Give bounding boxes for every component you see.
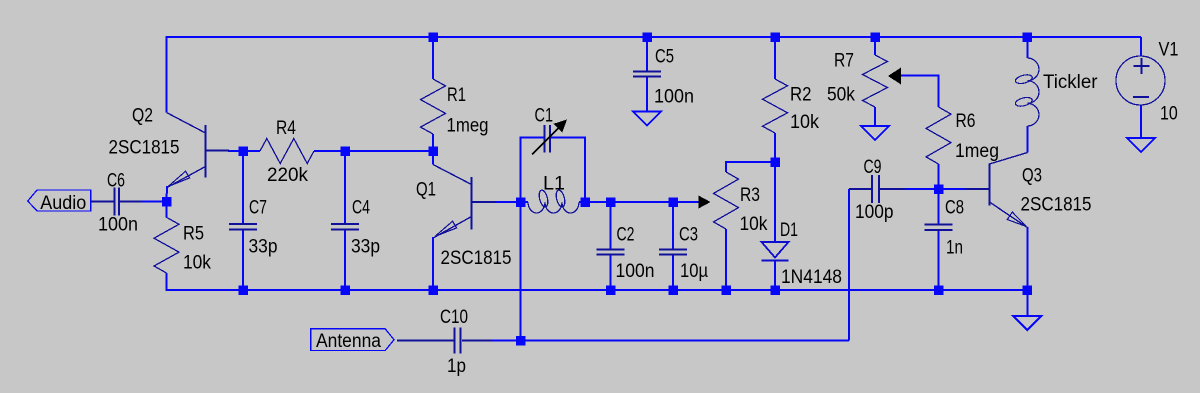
label R1 [447,85,466,106]
wire C10 to tank column [462,340,521,342]
junction node 20 [721,285,731,295]
wire C7 top lead [242,151,244,223]
label Q1 [416,180,436,201]
wire R2 node to R3 top [726,162,775,172]
svg-text:10k: 10k [740,214,768,235]
junction node 1 [642,32,652,42]
ground at Q3 emitter [1013,316,1041,330]
svg-text:R2: R2 [790,85,812,106]
svg-text:C1: C1 [535,106,554,127]
label Q3 [1022,166,1042,187]
wire Q2 collector column [166,36,168,113]
junction node 17 [428,285,438,295]
label Q2 [132,106,153,127]
junction node 9 [516,197,526,207]
svg-text:Tickler: Tickler [1043,72,1098,93]
svg-text:Q3: Q3 [1022,166,1042,187]
label V1 [1159,40,1179,61]
svg-text:R6: R6 [956,111,976,132]
svg-text:Audio: Audio [40,193,86,214]
svg-text:Q1: Q1 [416,180,436,201]
wire C5 bottom lead [646,78,648,113]
wire R1 top lead [432,37,434,79]
capacitor C6 [91,188,141,216]
wire C5 top lead [646,37,648,71]
ground at R7 [861,126,889,140]
label 100n [654,87,694,108]
potentiometer R7 wiper arrow [888,68,901,85]
wire D1 top lead [774,162,776,242]
svg-text:1n: 1n [946,238,963,259]
resistor R6 [926,107,951,164]
capacitor C4 plates [331,224,359,230]
label R3 [740,185,760,206]
svg-text:100n: 100n [654,87,694,108]
wire Audio node to junction [141,201,167,203]
variable capacitor C1 plates [545,125,551,152]
svg-text:V1: V1 [1159,40,1179,61]
svg-text:C2: C2 [617,225,635,246]
wire C3 top lead [672,202,674,249]
label 100n [98,215,138,236]
label 2SC1815 [1021,195,1092,216]
svg-text:R3: R3 [740,185,760,206]
svg-text:10k: 10k [790,112,819,133]
label 10k [740,214,768,235]
wire C8 top lead [938,189,940,224]
junction node 6 [238,146,248,156]
wire Q3 emitter column [1026,227,1028,290]
label C8 [945,198,964,219]
wire L1 to C2 node [585,201,611,203]
svg-text:C9: C9 [864,157,882,178]
wire R4 right lead [314,150,345,152]
label 33p [249,237,278,258]
junction node 7 [340,146,350,156]
svg-text:C10: C10 [440,307,468,328]
wire antenna flag to C10 [397,340,454,342]
net flag Audio [28,190,91,214]
potentiometer R3 wiper arrow [699,196,711,209]
resistor R4 [260,139,314,164]
wire bottom ground rail [166,289,1028,291]
svg-text:Antenna: Antenna [316,331,381,352]
wire R2 top lead [774,37,776,79]
junction node 13 [770,157,780,167]
svg-text:R1: R1 [447,85,466,106]
svg-text:220k: 220k [267,165,308,186]
label C2 [617,225,635,246]
svg-text:R5: R5 [183,224,204,245]
variable capacitor C1 arrow [532,120,567,155]
svg-text:C5: C5 [655,47,674,68]
wire Q1 collector lead [432,151,434,165]
label 1meg [447,116,489,137]
transistor Q1 [433,165,495,238]
capacitor C7 plates [229,224,257,230]
label 10k [183,253,211,274]
svg-text:10µ: 10µ [680,261,708,282]
transistor Q3 [966,153,1028,228]
junction node 15 [238,285,248,295]
capacitor C2 plates [597,250,625,255]
capacitor C10 plates [454,328,460,354]
label L1 [543,174,565,195]
wire C4 bottom lead [344,231,346,291]
wire C3 bottom lead [672,256,674,290]
junction node 8 [428,146,438,156]
wire L1 right lead [579,201,585,203]
transistor Q2 [167,113,230,202]
wire C3 node to R3 wiper [673,201,699,203]
svg-text:2SC1815: 2SC1815 [1021,195,1092,216]
label 1p [447,356,466,377]
label C4 [352,198,370,219]
junction node 19 [668,285,678,295]
svg-text:1meg: 1meg [955,141,999,162]
svg-text:R7: R7 [834,51,854,72]
ground at C5 [633,112,661,126]
svg-text:C4: C4 [352,198,370,219]
svg-text:10k: 10k [183,253,211,274]
label R2 [790,85,812,106]
wire C9 right lead [880,188,939,190]
label R5 [183,224,204,245]
wire R6 bottom lead [938,164,940,189]
ground at V1 [1127,138,1155,152]
label 2SC1815 [441,248,512,269]
resistor R5 [154,217,179,273]
wire node C4 to R1 node [345,150,433,152]
wire tank node down to antenna row [520,202,522,341]
wire R4 left lead [243,150,260,152]
wire Q1 base to tank node [494,201,521,203]
svg-text:50k: 50k [827,85,855,106]
junction node 2 [770,32,780,42]
resistor R2 [763,79,788,133]
svg-text:10: 10 [1160,104,1178,125]
wire R7 ground lead [874,107,876,127]
wire R5 top lead [166,202,168,218]
wire C1 left/top loop [521,138,545,203]
capacitor C5 plates [633,72,661,77]
wire R7 wiper to R6 [901,76,939,108]
label D1 [780,220,798,241]
junction node 24 [516,336,526,346]
svg-text:L1: L1 [543,174,565,195]
potentiometer R7 [863,55,888,107]
wire C8 bottom lead [938,231,940,290]
wire C4 top lead [344,151,346,223]
junction node 12 [668,197,678,207]
junction node 23 [1023,285,1033,295]
wire R2 bottom lead [774,133,776,162]
label 220k [267,165,308,186]
label Tickler [1043,72,1098,93]
wire C2 node to C3 node [611,201,674,203]
junction node 3 [870,32,880,42]
svg-text:100n: 100n [616,261,655,282]
inductor Tickler coil [1015,58,1039,126]
wire R3 bottom lead [725,229,727,290]
junction node 5 [162,197,172,207]
svg-text:2SC1815: 2SC1815 [441,248,512,269]
label C9 [864,157,882,178]
wire tickler top lead [1026,37,1028,58]
label 10&#181; [680,261,708,282]
wire L1 left lead [521,201,529,203]
svg-text:C6: C6 [107,171,125,192]
junction node 14 [934,184,944,194]
wire C9 corner column [848,189,850,341]
wire top supply rail [167,37,1142,56]
junction node 16 [340,285,350,295]
potentiometer R3 [714,172,739,229]
junction node 18 [606,285,616,295]
junction node 21 [770,285,780,295]
svg-text:1N4148: 1N4148 [781,267,842,288]
svg-text:Q2: Q2 [132,106,153,127]
junction node 11 [606,197,616,207]
svg-text:R4: R4 [276,118,296,139]
svg-text:C3: C3 [679,225,698,246]
label C6 [107,171,125,192]
svg-text:1meg: 1meg [447,116,489,137]
label 33p [351,237,380,258]
label R6 [956,111,976,132]
svg-text:C8: C8 [945,198,964,219]
label C10 [440,307,468,328]
svg-text:1p: 1p [447,356,466,377]
svg-text:2SC1815: 2SC1815 [109,138,180,159]
wire C1 top right loop [551,138,585,203]
label R7 [834,51,854,72]
wire C2 bottom lead [610,256,612,290]
inductor L1 [528,189,579,213]
wire C2 top lead [610,202,612,249]
net flag Antenna [311,329,394,352]
svg-text:33p: 33p [351,237,380,258]
junction node 0 [428,32,438,42]
wire Q2 base to node [228,150,243,152]
svg-text:D1: D1 [780,220,798,241]
wire D1 bottom lead [774,261,776,291]
resistor R1 [421,79,446,134]
capacitor C9 plates [872,175,879,203]
label R4 [276,118,296,139]
wire V1 bottom lead [1140,105,1142,138]
label 50k [827,85,855,106]
label 10 [1160,104,1178,125]
label 100n [616,261,655,282]
label 2SC1815 [109,138,180,159]
wire Q3 ground lead [1026,290,1028,316]
wire C9 left lead [849,188,871,190]
wire Q1 emitter column [432,237,434,290]
capacitor C8 plates [925,225,953,230]
wire Q3 base wire [939,188,967,190]
label C5 [655,47,674,68]
diode D1 [762,242,789,261]
label C7 [249,198,267,219]
wire C7 bottom lead [242,231,244,291]
svg-text:33p: 33p [249,237,278,258]
wire R1 bottom lead [432,134,434,151]
wire antenna row to C9 column [521,340,850,342]
svg-text:100n: 100n [98,215,138,236]
label 1n [946,238,963,259]
label C3 [679,225,698,246]
wire R5 bottom lead [166,273,168,291]
junction node 4 [1023,32,1033,42]
svg-text:100p: 100p [855,202,894,223]
voltage source V1 [1116,56,1165,105]
label 1meg [955,141,999,162]
capacitor C3 plates [659,250,687,255]
label 10k [790,112,819,133]
junction node 22 [934,285,944,295]
junction node 10 [580,197,590,207]
wire tickler to Q3 collector [1026,126,1028,153]
label C1 [535,106,554,127]
label 1N4148 [781,267,842,288]
wire R7 top lead [874,37,876,55]
svg-text:C7: C7 [249,198,267,219]
label 100p [855,202,894,223]
